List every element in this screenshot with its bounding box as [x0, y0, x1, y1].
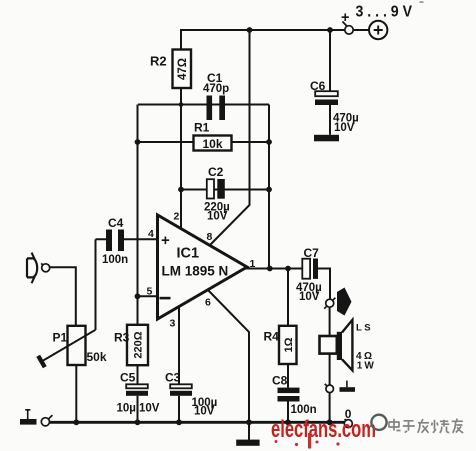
svg-text:100n: 100n	[102, 254, 128, 266]
svg-text:R3: R3	[114, 331, 130, 345]
svg-text:10V: 10V	[194, 406, 215, 418]
svg-text:47Ω: 47Ω	[177, 58, 189, 80]
svg-text:1W: 1W	[357, 360, 376, 371]
svg-text:10V: 10V	[207, 211, 228, 223]
svg-text:10µ: 10µ	[117, 403, 136, 415]
svg-text:IC1: IC1	[177, 246, 200, 262]
svg-text:3 . . . 9 V: 3 . . . 9 V	[356, 4, 413, 21]
svg-text:100n: 100n	[291, 404, 317, 416]
svg-text:+: +	[161, 232, 170, 249]
svg-text:R4: R4	[264, 330, 280, 344]
svg-text:C5: C5	[120, 371, 136, 385]
svg-text:C7: C7	[304, 246, 320, 260]
svg-text:10V: 10V	[139, 403, 160, 415]
svg-text:P1: P1	[53, 331, 68, 345]
svg-text:8: 8	[207, 231, 213, 243]
svg-text:4: 4	[148, 228, 154, 240]
svg-text:6: 6	[205, 297, 211, 309]
svg-text:3: 3	[170, 318, 176, 330]
svg-text:C6: C6	[310, 79, 326, 93]
svg-text:LM 1895 N: LM 1895 N	[162, 264, 229, 279]
svg-text:10k: 10k	[202, 137, 222, 151]
svg-text:10V: 10V	[299, 291, 320, 303]
svg-text:LS: LS	[356, 323, 373, 334]
svg-text:R1: R1	[194, 121, 210, 135]
svg-text:1: 1	[250, 258, 256, 270]
svg-text:2: 2	[174, 211, 180, 223]
svg-text:+: +	[341, 10, 349, 26]
svg-text:elecfans.com: elecfans.com	[271, 416, 376, 443]
svg-text:220Ω: 220Ω	[133, 331, 145, 358]
svg-text:470p: 470p	[203, 83, 229, 95]
svg-text:5: 5	[147, 286, 153, 298]
svg-text:1Ω: 1Ω	[283, 337, 295, 352]
svg-text:R2: R2	[150, 54, 167, 69]
svg-text:10V: 10V	[334, 122, 355, 134]
svg-text:C4: C4	[108, 216, 124, 230]
svg-text:C2: C2	[208, 165, 224, 179]
svg-text:C8: C8	[272, 374, 288, 388]
svg-text:50k: 50k	[87, 350, 107, 364]
svg-text:C3: C3	[165, 371, 181, 385]
